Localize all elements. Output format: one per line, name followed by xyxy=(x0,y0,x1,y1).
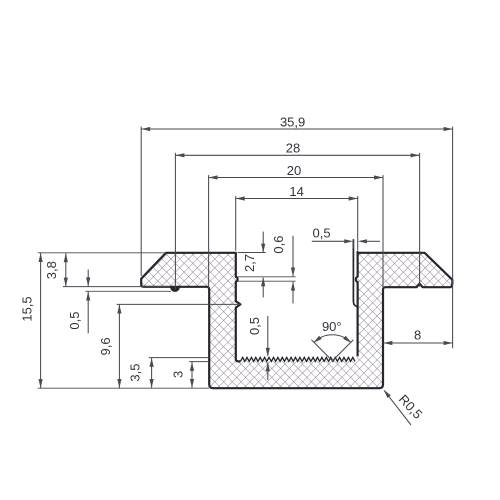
svg-text:0,5: 0,5 xyxy=(247,317,262,335)
ext line bump bottom y=281.2 xyxy=(238,280,296,282)
svg-text:2,7: 2,7 xyxy=(242,254,257,272)
ext line valleys y=361.6 xyxy=(189,361,209,363)
dim 14 slot opening xyxy=(236,198,358,200)
ext line bottom y=388 xyxy=(38,387,209,389)
dim 90 deg tooth angle xyxy=(311,340,353,361)
svg-text:3: 3 xyxy=(170,371,185,378)
svg-text:R0,5: R0,5 xyxy=(396,392,426,422)
ext line bulb bottom y=291.3 xyxy=(85,290,171,292)
leader R0,5 corner radius xyxy=(384,390,411,425)
svg-text:28: 28 xyxy=(286,141,300,156)
dim 28 xyxy=(175,154,419,156)
svg-text:14: 14 xyxy=(289,184,303,199)
ext line x=175.4 to bulb xyxy=(174,153,176,290)
dim 8 right wing width xyxy=(383,342,452,344)
ext line wing underside y=286.6 xyxy=(63,286,170,288)
svg-text:35,9: 35,9 xyxy=(280,114,305,129)
svg-text:0,5: 0,5 xyxy=(67,312,82,330)
dim 35,9 overall width xyxy=(141,128,452,130)
svg-text:8: 8 xyxy=(414,328,421,343)
dim 20 xyxy=(209,177,383,179)
white slot between breakaway fin and right wall xyxy=(354,254,356,306)
ext line top surface y=253 xyxy=(38,252,166,254)
dim 3,8 wing thickness xyxy=(65,253,67,286)
ext line right edge x=452.5 xyxy=(452,127,454,349)
ext line nub y=304.4 xyxy=(117,303,241,305)
dim 0,5 serration depth (mid) xyxy=(267,316,269,356)
ext line x=383 wall outer R xyxy=(382,175,384,288)
ext line wall top y=252.5 xyxy=(238,252,266,254)
ext line x=357.7 xyxy=(357,196,359,251)
ext line x=419.6 to notch xyxy=(419,153,421,287)
ext line bump top y=276.8 xyxy=(238,276,296,278)
right wall inner face redrawn with snap bump xyxy=(356,253,358,305)
breakaway fin xyxy=(353,239,357,306)
svg-text:0,6: 0,6 xyxy=(271,236,286,254)
svg-text:90°: 90° xyxy=(322,319,342,334)
svg-text:15,5: 15,5 xyxy=(19,296,34,321)
svg-text:3,8: 3,8 xyxy=(44,261,59,279)
ext line tooth tips y=357.6 xyxy=(149,357,209,359)
serrated clamping floor xyxy=(240,357,355,361)
locator bulb under left wing xyxy=(171,287,180,292)
profile cross-section (hatched aluminium extrusion) xyxy=(141,252,452,388)
svg-text:0,5: 0,5 xyxy=(313,226,331,241)
dim 15,5 overall height xyxy=(40,253,42,388)
dim 3 plate thickness xyxy=(191,362,193,388)
svg-text:9,6: 9,6 xyxy=(98,337,113,355)
dim 0,5 bulb depth (left) xyxy=(87,270,89,287)
dim 9,6 nub height xyxy=(118,305,120,389)
ext line x=235.7 xyxy=(235,196,237,251)
svg-text:20: 20 xyxy=(287,163,301,178)
dim 0,5 fin thickness (top right) xyxy=(312,240,345,242)
svg-text:3,5: 3,5 xyxy=(127,364,142,382)
ext line x=208.6 wall outer L xyxy=(208,175,210,288)
ext line left edge x=141 xyxy=(140,127,142,276)
dim 3,5 serration tip height xyxy=(151,358,153,388)
